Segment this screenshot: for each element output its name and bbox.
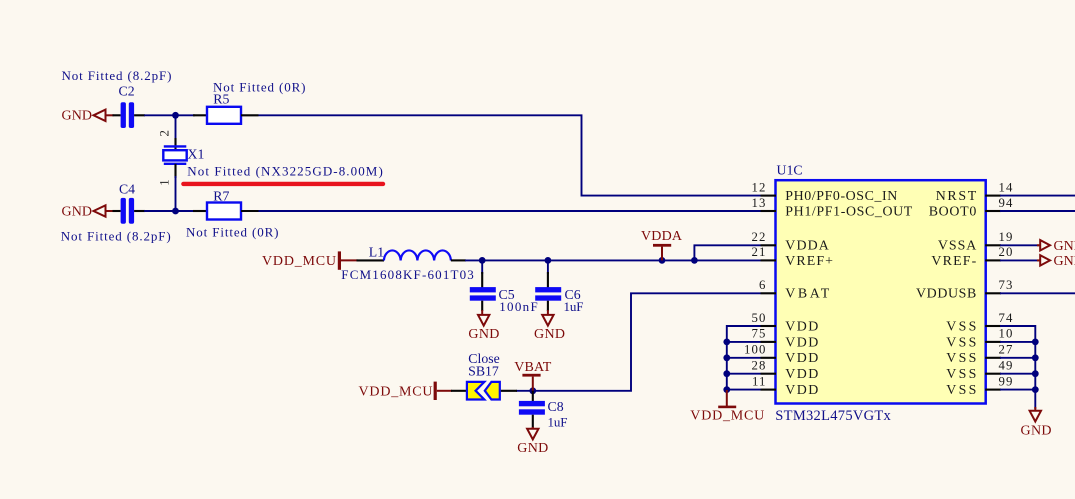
crystal X1 pin 1 wire xyxy=(174,164,176,178)
pin 20 (VREF-) right xyxy=(931,245,1013,269)
pin 50 (VDD) left xyxy=(752,311,819,335)
svg-text:VREF+: VREF+ xyxy=(785,254,833,269)
svg-text:50: 50 xyxy=(752,311,767,325)
svg-text:VSS: VSS xyxy=(946,383,976,398)
pin 74 (VSS) right xyxy=(946,311,1013,335)
svg-text:SB17: SB17 xyxy=(468,364,499,379)
svg-text:49: 49 xyxy=(999,359,1014,373)
junction node VBAT/C8 xyxy=(529,387,536,394)
svg-text:VSS: VSS xyxy=(946,367,976,382)
pin 14 (NRST) right xyxy=(936,180,1014,204)
svg-text:Not Fitted (8.2pF): Not Fitted (8.2pF) xyxy=(62,68,172,83)
pin 6 (VBAT) left xyxy=(759,278,830,302)
wire R5 to corner xyxy=(259,115,761,195)
wire L1 to rail xyxy=(465,259,694,261)
crystal X1 xyxy=(163,146,186,163)
junction node VDD bus y=372.8 xyxy=(723,370,730,377)
svg-text:VDD: VDD xyxy=(785,351,818,366)
svg-text:VSS: VSS xyxy=(946,351,976,366)
wire branch to pin 22 xyxy=(694,245,760,260)
wire BOOT0 (pin 94) xyxy=(1000,210,1075,212)
wire R7 to pin 13 xyxy=(259,210,761,212)
inductor L1 xyxy=(357,250,467,260)
svg-text:GND: GND xyxy=(517,441,548,456)
pin 19 (VSSA) right xyxy=(938,230,1014,254)
pin 73 (VDDUSB) right xyxy=(916,278,1014,302)
svg-text:GND: GND xyxy=(1021,424,1052,439)
red no-ERC underline xyxy=(181,182,385,186)
svg-text:VDD: VDD xyxy=(785,335,818,350)
capacitor C5 xyxy=(470,260,496,311)
wire C2 to junction xyxy=(144,114,175,116)
svg-text:R5: R5 xyxy=(213,91,229,106)
power port GND (under C8) xyxy=(517,427,548,456)
svg-text:1uF: 1uF xyxy=(564,299,584,314)
pin 100 (VDD) left xyxy=(744,343,818,367)
power port GND (lower left) xyxy=(62,204,114,219)
wire junction to R7 xyxy=(176,210,196,212)
pin 75 (VDD) left xyxy=(752,326,819,350)
svg-text:GND: GND xyxy=(468,327,499,342)
IC U1C body xyxy=(776,180,986,403)
power port GND (right, y=260.4) xyxy=(1000,254,1075,269)
svg-text:6: 6 xyxy=(759,278,767,292)
svg-text:FCM1608KF-601T03: FCM1608KF-601T03 xyxy=(341,267,474,282)
svg-text:GND: GND xyxy=(62,204,93,219)
junction node VSS bus y=388.8 xyxy=(1032,386,1039,393)
svg-text:VREF-: VREF- xyxy=(931,254,976,269)
svg-text:2: 2 xyxy=(158,130,172,136)
capacitor C4 xyxy=(113,198,146,224)
svg-text:1: 1 xyxy=(158,179,172,185)
svg-text:Not Fitted (0R): Not Fitted (0R) xyxy=(186,225,279,240)
junction node (crystal bottom) xyxy=(172,208,179,215)
capacitor C2 xyxy=(113,102,146,128)
svg-text:22: 22 xyxy=(752,230,767,244)
svg-text:VBAT: VBAT xyxy=(514,360,551,375)
pin 99 (VSS) right xyxy=(946,374,1013,398)
VDD stub y=341.6 xyxy=(727,341,761,343)
wire VDDUSB (pin 73) xyxy=(1000,292,1075,294)
svg-text:10: 10 xyxy=(999,326,1014,340)
svg-text:GND: GND xyxy=(62,109,93,124)
wire pin 6 VBAT net xyxy=(516,293,761,391)
svg-text:14: 14 xyxy=(999,180,1014,194)
svg-text:C2: C2 xyxy=(119,84,135,99)
VSS stub y=357.2 xyxy=(1000,357,1035,359)
svg-text:99: 99 xyxy=(999,374,1014,388)
wire NRST (pin 14) xyxy=(1000,195,1075,197)
svg-text:VDD_MCU: VDD_MCU xyxy=(690,408,764,423)
svg-text:27: 27 xyxy=(999,343,1014,357)
svg-text:100: 100 xyxy=(744,343,767,357)
svg-text:75: 75 xyxy=(752,326,767,340)
pin 12 (PH0/PF0-OSC_IN) left xyxy=(752,180,898,204)
junction node C5 xyxy=(479,257,486,264)
VSS stub y=341.6 xyxy=(1000,341,1035,343)
svg-text:11: 11 xyxy=(752,374,767,388)
junction node VDDA xyxy=(659,257,666,264)
svg-text:C8: C8 xyxy=(548,399,564,414)
VDD stub y=388.8 xyxy=(727,389,761,391)
svg-text:21: 21 xyxy=(752,245,767,259)
svg-text:VDD: VDD xyxy=(785,319,818,334)
svg-text:VSSA: VSSA xyxy=(938,239,976,254)
svg-text:VSS: VSS xyxy=(946,335,976,350)
VDD stub y=357.2 xyxy=(727,357,761,359)
VSS bus wire xyxy=(1000,326,1035,409)
VSS stub y=372.8 xyxy=(1000,373,1035,375)
svg-text:BOOT0: BOOT0 xyxy=(929,204,977,219)
junction node VDD bus y=341.6 xyxy=(723,339,730,346)
svg-text:R7: R7 xyxy=(213,188,229,203)
resistor R5 xyxy=(193,107,259,124)
svg-text:VDD: VDD xyxy=(785,383,818,398)
svg-text:GND: GND xyxy=(534,327,565,342)
pin 21 (VREF+) left xyxy=(752,245,834,269)
capacitor C6 xyxy=(535,260,561,311)
svg-text:73: 73 xyxy=(999,278,1014,292)
wire junction to R5 xyxy=(176,114,196,116)
crystal X1 pin 2 wire xyxy=(175,115,177,140)
junction node VDD bus y=388.8 xyxy=(723,386,730,393)
svg-text:U1C: U1C xyxy=(777,163,803,178)
svg-text:74: 74 xyxy=(999,311,1014,325)
svg-text:1uF: 1uF xyxy=(548,414,568,429)
junction node VSS bus y=357.2 xyxy=(1032,354,1039,361)
svg-text:Not Fitted (8.2pF): Not Fitted (8.2pF) xyxy=(61,228,171,243)
svg-text:100nF: 100nF xyxy=(499,299,538,314)
svg-text:C4: C4 xyxy=(119,181,135,196)
svg-text:GND: GND xyxy=(1054,254,1075,269)
wire rail to pin 21 xyxy=(694,259,760,261)
svg-text:12: 12 xyxy=(752,180,767,194)
power port GND (right, y=245.3) xyxy=(1000,239,1075,254)
junction node C6 xyxy=(545,257,552,264)
svg-text:X1: X1 xyxy=(188,147,205,162)
power port VDD_MCU (below U1C) xyxy=(690,390,764,423)
svg-text:GND: GND xyxy=(1054,239,1075,254)
VDD bus wire xyxy=(727,326,761,390)
wire C4 to junction xyxy=(144,210,175,212)
svg-text:STM32L475VGTx: STM32L475VGTx xyxy=(775,408,891,424)
junction node (crystal top) xyxy=(172,112,179,119)
pin 94 (BOOT0) right xyxy=(929,196,1014,220)
svg-text:PH0/PF0-OSC_IN: PH0/PF0-OSC_IN xyxy=(785,189,897,204)
pin 22 (VDDA) left xyxy=(752,230,829,254)
power port GND (top left) xyxy=(62,109,114,124)
power port VBAT xyxy=(514,360,551,391)
svg-text:Not Fitted (NX3225GD-8.00M): Not Fitted (NX3225GD-8.00M) xyxy=(187,163,382,178)
svg-text:PH1/PF1-OSC_OUT: PH1/PF1-OSC_OUT xyxy=(785,204,913,219)
pin 28 (VDD) left xyxy=(752,359,819,383)
capacitor C8 xyxy=(519,391,545,428)
svg-text:NRST: NRST xyxy=(936,189,977,204)
power port GND (below VSS bus) xyxy=(1021,407,1052,439)
svg-text:13: 13 xyxy=(752,196,767,210)
svg-text:VDD_MCU: VDD_MCU xyxy=(262,254,336,269)
pin 10 (VSS) right xyxy=(946,326,1013,350)
svg-text:VDDUSB: VDDUSB xyxy=(916,287,976,302)
svg-text:28: 28 xyxy=(752,359,767,373)
svg-text:VSS: VSS xyxy=(946,319,976,334)
pin 13 (PH1/PF1-OSC_OUT) left xyxy=(752,196,913,220)
VDD stub y=372.8 xyxy=(727,373,761,375)
power port VDD_MCU (ferrite row) xyxy=(262,251,358,269)
svg-text:20: 20 xyxy=(999,245,1014,259)
power port GND (under C5) xyxy=(468,310,499,342)
svg-text:L1: L1 xyxy=(369,244,384,259)
junction node VREF branch xyxy=(691,257,698,264)
svg-text:VDDA: VDDA xyxy=(785,239,829,254)
power port VDDA xyxy=(641,229,683,261)
VSS stub y=388.8 xyxy=(1000,389,1035,391)
svg-text:94: 94 xyxy=(999,196,1014,210)
svg-text:19: 19 xyxy=(999,230,1014,244)
svg-text:VDD_MCU: VDD_MCU xyxy=(359,384,433,399)
pin 11 (VDD) left xyxy=(752,374,818,398)
pin 49 (VSS) right xyxy=(946,359,1013,383)
svg-text:VDD: VDD xyxy=(785,367,818,382)
resistor R7 xyxy=(193,203,259,220)
junction node VSS bus y=341.6 xyxy=(1032,339,1039,346)
svg-text:VDDA: VDDA xyxy=(641,229,683,244)
junction node VSS bus y=372.8 xyxy=(1032,370,1039,377)
power port GND (under C6) xyxy=(534,310,565,342)
power port VDD_MCU (SB17 row) xyxy=(359,382,453,400)
pin 27 (VSS) right xyxy=(946,343,1013,367)
junction node VDD bus y=357.2 xyxy=(723,354,730,361)
solder bridge SB17 xyxy=(451,382,517,400)
